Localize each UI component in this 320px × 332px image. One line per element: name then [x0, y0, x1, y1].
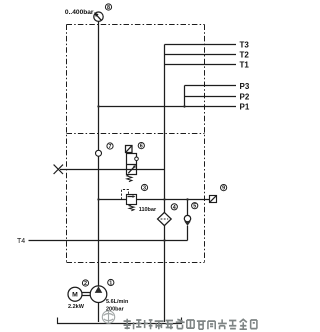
wire: check valve upper drop [187, 200, 189, 216]
enclosure boundary right edge (dash-dot) [204, 25, 206, 263]
svg-text:T2: T2 [240, 50, 250, 59]
gauge isolator cock (small circle on pressure line) [96, 150, 102, 156]
wire: T3 branch [165, 44, 237, 46]
svg-text:T3: T3 [240, 41, 250, 50]
item number 8 (gauge) [105, 4, 111, 11]
wire: T1 branch [165, 64, 237, 66]
watermark company name (vector strokes, CJK look-alike) [124, 319, 257, 329]
svg-text:1: 1 [109, 281, 112, 287]
plugged port X [54, 165, 63, 174]
item number 5 (check valve) [192, 203, 198, 210]
svg-text:2.2kW: 2.2kW [68, 304, 85, 310]
svg-text:P3: P3 [240, 82, 250, 91]
svg-text:P2: P2 [240, 92, 250, 101]
svg-text:5.6L/min: 5.6L/min [106, 299, 129, 305]
wire: P1 pressure line horizontal [99, 106, 237, 108]
svg-text:M: M [72, 292, 78, 299]
wire: T return bus vertical upper (T3 to filter top) [164, 45, 166, 213]
svg-text:9: 9 [222, 186, 225, 192]
item number 4 (filter) [171, 204, 177, 211]
return filter F1 [158, 212, 172, 225]
wire: P3 branch [185, 85, 237, 87]
enclosure boundary top edge (dash-dot) [67, 24, 205, 26]
junction node relief tap on pressure line [97, 198, 99, 200]
pressure gauge G1 [94, 12, 103, 21]
junction node T bus on relief line [163, 198, 165, 200]
svg-text:110bar: 110bar [139, 207, 157, 213]
junction node T4 on return bus [163, 239, 165, 241]
svg-text:6: 6 [140, 144, 143, 150]
electric motor M1 [68, 287, 82, 301]
svg-text:T1: T1 [240, 60, 250, 69]
wire: T4 return line [29, 240, 188, 242]
drive shaft coupling (double line) [82, 293, 91, 296]
wire: P branch bus vertical [184, 86, 186, 107]
wire: T return bus vertical lower (filter bottom to tank) [164, 226, 166, 322]
wire: P2 branch [185, 96, 237, 98]
svg-text:4: 4 [173, 205, 176, 211]
check valve CV1 (filter bypass) [184, 215, 190, 225]
pilot line of relief valve (dashed) [122, 190, 129, 200]
junction node P bus on P1 line [183, 105, 185, 107]
watermark logo emblem [102, 311, 114, 323]
enclosure divider between valve block and power unit (dash-dot) [67, 133, 205, 135]
test coupling / plug on tank line [210, 196, 217, 203]
spring of relief valve [129, 205, 134, 211]
junction node P1 tap [97, 105, 99, 107]
svg-text:5: 5 [193, 204, 196, 210]
svg-text:T4: T4 [17, 238, 25, 245]
svg-text:2: 2 [84, 281, 87, 287]
item number 6 (solenoid valve) [138, 143, 144, 150]
enclosure boundary bottom edge (dash-dot) [67, 262, 205, 264]
item number 9 (coupling) [221, 185, 227, 192]
svg-text:7: 7 [109, 144, 112, 150]
wire: relief valve line from pressure line to coupling [99, 199, 210, 201]
wire: plugged port X to solenoid valve and on to T bus [60, 169, 165, 171]
svg-text:0..400bar: 0..400bar [65, 9, 94, 16]
spring of solenoid valve [127, 175, 132, 182]
wire: main pressure line from gauge down to pump [98, 21, 100, 286]
tank / reservoir [58, 318, 182, 324]
svg-text:P1: P1 [240, 103, 250, 112]
item number 3 (relief valve) [141, 184, 147, 191]
wire: pump suction line down into tank [98, 303, 100, 323]
hydraulic pump P [90, 286, 107, 303]
solenoid valve V1 (2/2 cartridge) [126, 146, 139, 175]
svg-text:3: 3 [143, 186, 146, 192]
item number 7 (cock) [107, 143, 113, 150]
wire: check valve lower drop to T4 line [187, 226, 189, 241]
relief valve RV1 [127, 195, 137, 205]
enclosure boundary left edge (dash-dot) [66, 25, 68, 263]
svg-text:8: 8 [107, 5, 110, 11]
wire: T2 branch [165, 54, 237, 56]
item number 2 (motor) [82, 280, 88, 287]
item number 1 (pump) [108, 279, 114, 286]
junction node check valve tap [186, 198, 188, 200]
